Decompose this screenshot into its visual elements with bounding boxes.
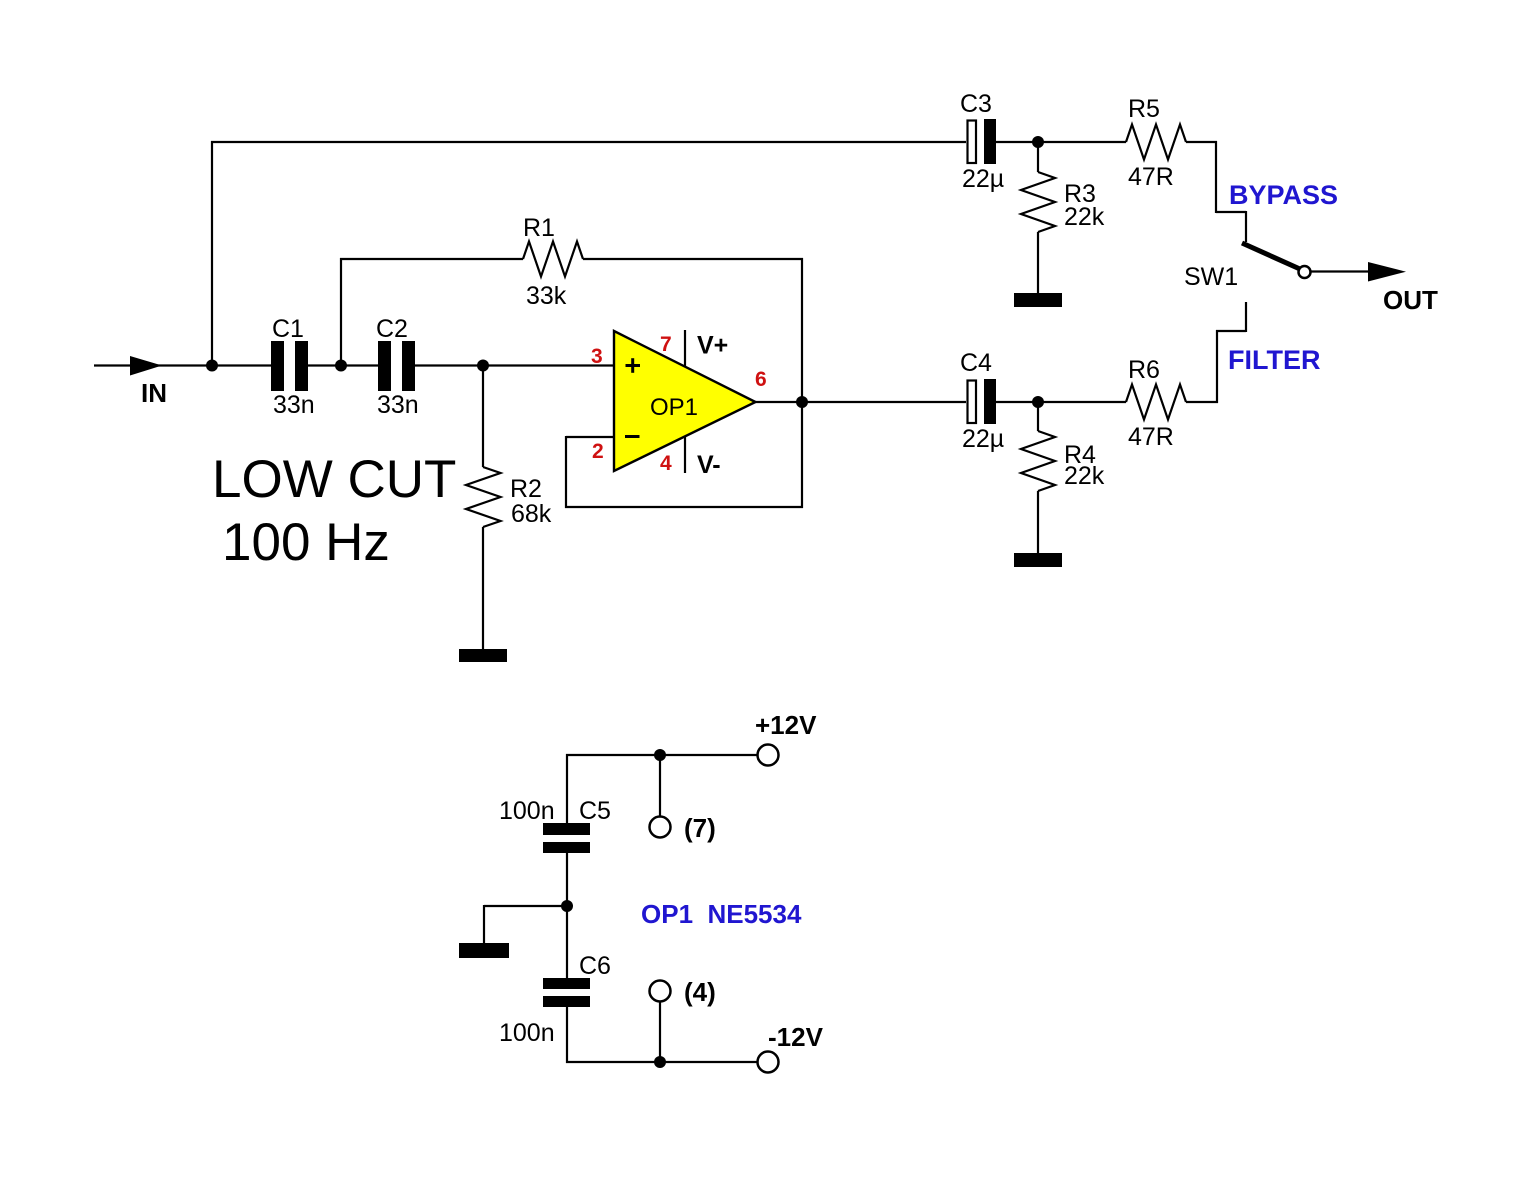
resistor R4 [1021,431,1055,491]
capacitor C6 [543,978,590,1007]
wire C6 bottom lead [566,1007,568,1063]
switch SW1 blade [1242,243,1301,270]
svg-text:C4: C4 [960,349,992,377]
wire pin7 drop [659,755,661,816]
resistor R1 [523,242,583,277]
wire bypass vertical 1 [1215,141,1217,213]
svg-text:3: 3 [591,345,603,368]
svg-text:-12V: -12V [768,1022,824,1052]
ground supply [459,943,509,958]
svg-text:V-: V- [697,451,721,479]
svg-text:C2: C2 [376,315,408,343]
wire R2 top lead [482,366,484,468]
svg-text:33k: 33k [526,282,567,310]
node C4/R4 junction [1032,396,1044,408]
resistor R3 [1021,172,1055,232]
ground R2 [459,649,507,662]
wire filter step [1216,330,1246,332]
wire switch to OUT [1311,270,1372,272]
capacitor C1 [271,341,308,391]
minus input mark [625,435,640,438]
wire filter vertical 1 [1216,330,1218,403]
switch SW1 pole contact [1299,266,1311,278]
wire C1 to C2 [308,364,378,366]
terminal pin 7 [650,817,671,838]
wire negative rail [566,1061,758,1063]
wire bypass step [1216,211,1246,213]
svg-text:IN: IN [141,378,167,408]
svg-text:FILTER: FILTER [1228,345,1320,375]
wire op-amp output [755,401,966,403]
node output junction [796,396,808,408]
wire R5 to bypass corner [1186,141,1217,143]
wire R1 right lead [583,258,803,260]
ground R4 [1014,553,1062,567]
wire inverting input lead [566,436,614,438]
svg-text:SW1: SW1 [1184,263,1238,291]
capacitor C2 [378,341,415,391]
wire node A up [211,141,213,366]
svg-text:R1: R1 [523,214,555,242]
wire positive rail [566,754,758,756]
wire R3 bottom lead [1037,232,1039,294]
node positive rail junction [654,749,666,761]
wire R2 bottom lead [482,527,484,650]
node B junction [335,360,347,372]
wire feedback bottom [565,506,803,508]
plus input mark [626,358,641,373]
terminal +12V [758,745,779,766]
svg-text:OUT: OUT [1383,285,1438,315]
wire node B up to R1 [340,258,342,366]
resistor R2 [466,467,501,527]
wire R4 top lead [1037,402,1039,431]
svg-text:100n: 100n [499,797,555,825]
svg-text:100n: 100n [499,1019,555,1047]
svg-text:22k: 22k [1064,203,1105,231]
wire C5 top lead [566,754,568,823]
svg-text:4: 4 [660,452,672,475]
wire feedback right vertical [801,258,803,508]
svg-text:22µ: 22µ [962,425,1004,453]
svg-text:(7): (7) [684,813,716,843]
IN arrowhead [130,356,162,376]
capacitor C5 [543,823,590,853]
svg-text:(4): (4) [684,977,716,1007]
svg-text:2: 2 [592,440,604,463]
wire C2 to op-amp [415,364,615,366]
pin 7 stub [684,330,686,367]
svg-text:V+: V+ [697,332,728,360]
svg-text:OP1 NE5534: OP1 NE5534 [641,899,802,929]
svg-text:+12V: +12V [755,710,817,740]
svg-text:68k: 68k [511,500,552,528]
svg-text:C5: C5 [579,797,611,825]
svg-text:R6: R6 [1128,356,1160,384]
op-amp OP1 [614,331,756,471]
resistor R6 [1126,385,1186,420]
svg-text:BYPASS: BYPASS [1229,180,1338,210]
wire feedback left vertical [565,436,567,508]
svg-text:OP1: OP1 [650,394,698,421]
svg-text:C1: C1 [272,315,304,343]
svg-text:R5: R5 [1128,95,1160,123]
ground R3 [1014,293,1062,307]
wire ground stub vertical [483,905,485,944]
wire top rail to C3 [211,141,966,143]
svg-text:33n: 33n [273,391,315,419]
node C junction [477,360,489,372]
svg-text:6: 6 [755,368,767,391]
svg-text:47R: 47R [1128,423,1174,451]
resistor R5 [1126,125,1186,160]
wire bypass vertical 2 [1245,211,1247,242]
wire IN lead [94,364,271,366]
pin 4 stub [684,437,686,474]
svg-text:C6: C6 [579,952,611,980]
wire R1 left lead [340,258,523,260]
svg-text:22k: 22k [1064,462,1105,490]
wire R3 top lead [1037,142,1039,172]
wire C4 to R6 [996,401,1126,403]
node A junction [206,360,218,372]
svg-text:7: 7 [660,333,672,356]
svg-text:LOW CUT: LOW CUT [212,450,456,509]
svg-text:C3: C3 [960,90,992,118]
svg-text:R2: R2 [510,475,542,503]
wire pin4 riser [659,1002,661,1062]
node negative rail junction [654,1056,666,1068]
terminal pin 4 [650,981,671,1002]
wire ground stub horizontal [484,905,567,907]
capacitor C3 [968,119,997,164]
svg-text:33n: 33n [377,391,419,419]
wire R4 bottom lead [1037,491,1039,554]
svg-text:100 Hz: 100 Hz [222,513,390,572]
OUT arrowhead [1368,262,1406,282]
wire filter vertical 2 [1245,302,1247,332]
node C3/R3 junction [1032,136,1044,148]
wire C5 to C6 [566,853,568,978]
svg-text:22µ: 22µ [962,165,1004,193]
wire C3 to R5 [996,141,1126,143]
terminal -12V [758,1052,779,1073]
wire R6 to filter corner [1186,401,1218,403]
node supply midpoint [561,900,573,912]
svg-text:47R: 47R [1128,163,1174,191]
capacitor C4 [968,379,997,424]
